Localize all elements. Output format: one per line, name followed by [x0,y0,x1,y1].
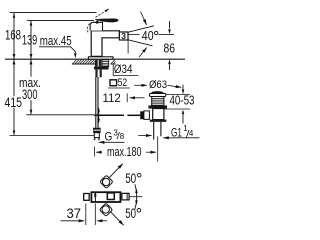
dimension line 168/415 vertical at x=14 [13,13,15,97]
top view: rotated handle position lower [99,203,112,216]
112 extension line from spout tip [127,40,129,54]
top view: rod hole [94,193,96,197]
waste nut with threads [152,97,164,106]
50-degree lower ray [110,212,123,226]
svg-text:4: 4 [189,129,194,138]
waste dark collar band [148,106,167,109]
waste bottom band [150,120,167,122]
40-degree mid tick to label [128,34,139,36]
wire: second reference line (139 level) [27,19,94,21]
svg-text:86: 86 [164,41,176,56]
svg-text:40-53: 40-53 [170,94,195,108]
svg-text:37: 37 [67,206,82,221]
svg-text:415: 415 [5,94,23,110]
40-degree lower arrow [139,48,147,58]
dashed raised-lever line with arrow [96,9,109,17]
svg-text:1: 1 [183,124,188,133]
shank threaded right part [102,60,109,67]
max.180 dimension [93,147,95,157]
86 dimension reference line at aerator level [159,33,175,35]
mounting nut [94,67,109,70]
415 level line arrow to tailpiece [10,135,97,137]
deck surface line [5,58,185,60]
top view: divider [94,192,96,202]
svg-text:50: 50 [125,206,136,221]
svg-text:168: 168 [5,27,21,43]
base plate [88,57,113,59]
40-53 dimension [166,94,190,96]
svg-text:40: 40 [142,29,154,43]
rod coupling box [144,111,150,120]
top view: handle square [107,193,114,200]
shank left tube [95,60,101,67]
37 dimension [85,204,87,226]
40-degree upper arrow [141,12,147,25]
supply tubes upper [95,70,97,78]
waste flange [150,93,166,96]
label square-52 [110,80,117,86]
ceramic hatch right [111,60,116,64]
86 dimension vertical with arrows [169,21,171,29]
lever blade [95,19,118,22]
svg-text:3: 3 [121,31,126,41]
top view: spout box [84,194,90,201]
svg-text:139: 139 [22,32,37,48]
drain tailpiece walls [153,122,155,140]
dashed swing arc left of dome [87,24,89,34]
G3/8 connector block [93,128,101,133]
svg-text:Ø34: Ø34 [114,62,133,76]
rod collar [140,111,144,119]
svg-text:G1: G1 [171,126,182,140]
ceramic underside left [72,63,98,65]
ceramic underside right [111,63,116,65]
svg-text:50: 50 [125,171,136,186]
50-degree upper ray [110,164,123,178]
ceramic hatch left [73,60,98,64]
handle dome [90,22,102,30]
swivel dimension arc with arrows [135,184,137,209]
top view: cartridge stem [122,193,129,200]
svg-text:max.180: max.180 [107,145,142,159]
svg-text:G: G [105,130,113,144]
supply pipes [95,77,97,128]
svg-text:300: 300 [22,86,38,102]
40-degree spray fan: upper ray [128,26,154,32]
max300 reference thin line [26,114,94,116]
svg-text:max.45: max.45 [40,33,72,48]
lever stem notch [96,21,99,24]
waste lower body [153,109,164,120]
40-degree spray fan: lower ray [128,40,152,46]
pop-up rod horizontal [94,114,124,116]
svg-text:52: 52 [118,77,128,89]
faucet body side view with spout slab [91,31,119,57]
svg-text:8: 8 [120,132,125,141]
swivel axis line [130,196,143,198]
label D34 with leader [112,63,114,75]
dimension line 139/max300 vertical at x=31 [30,20,32,76]
svg-text:Ø63: Ø63 [149,79,167,91]
tailpiece centerline extension [157,136,159,161]
pop-up rod vertical arrow [98,110,100,122]
wire: top reference line (168 level) [10,12,97,14]
aerator box [119,32,128,40]
svg-text:112: 112 [103,93,121,105]
top view: rotated handle position upper [100,175,113,188]
top view: body [91,192,120,202]
pop-up waste plug cap [151,91,163,94]
